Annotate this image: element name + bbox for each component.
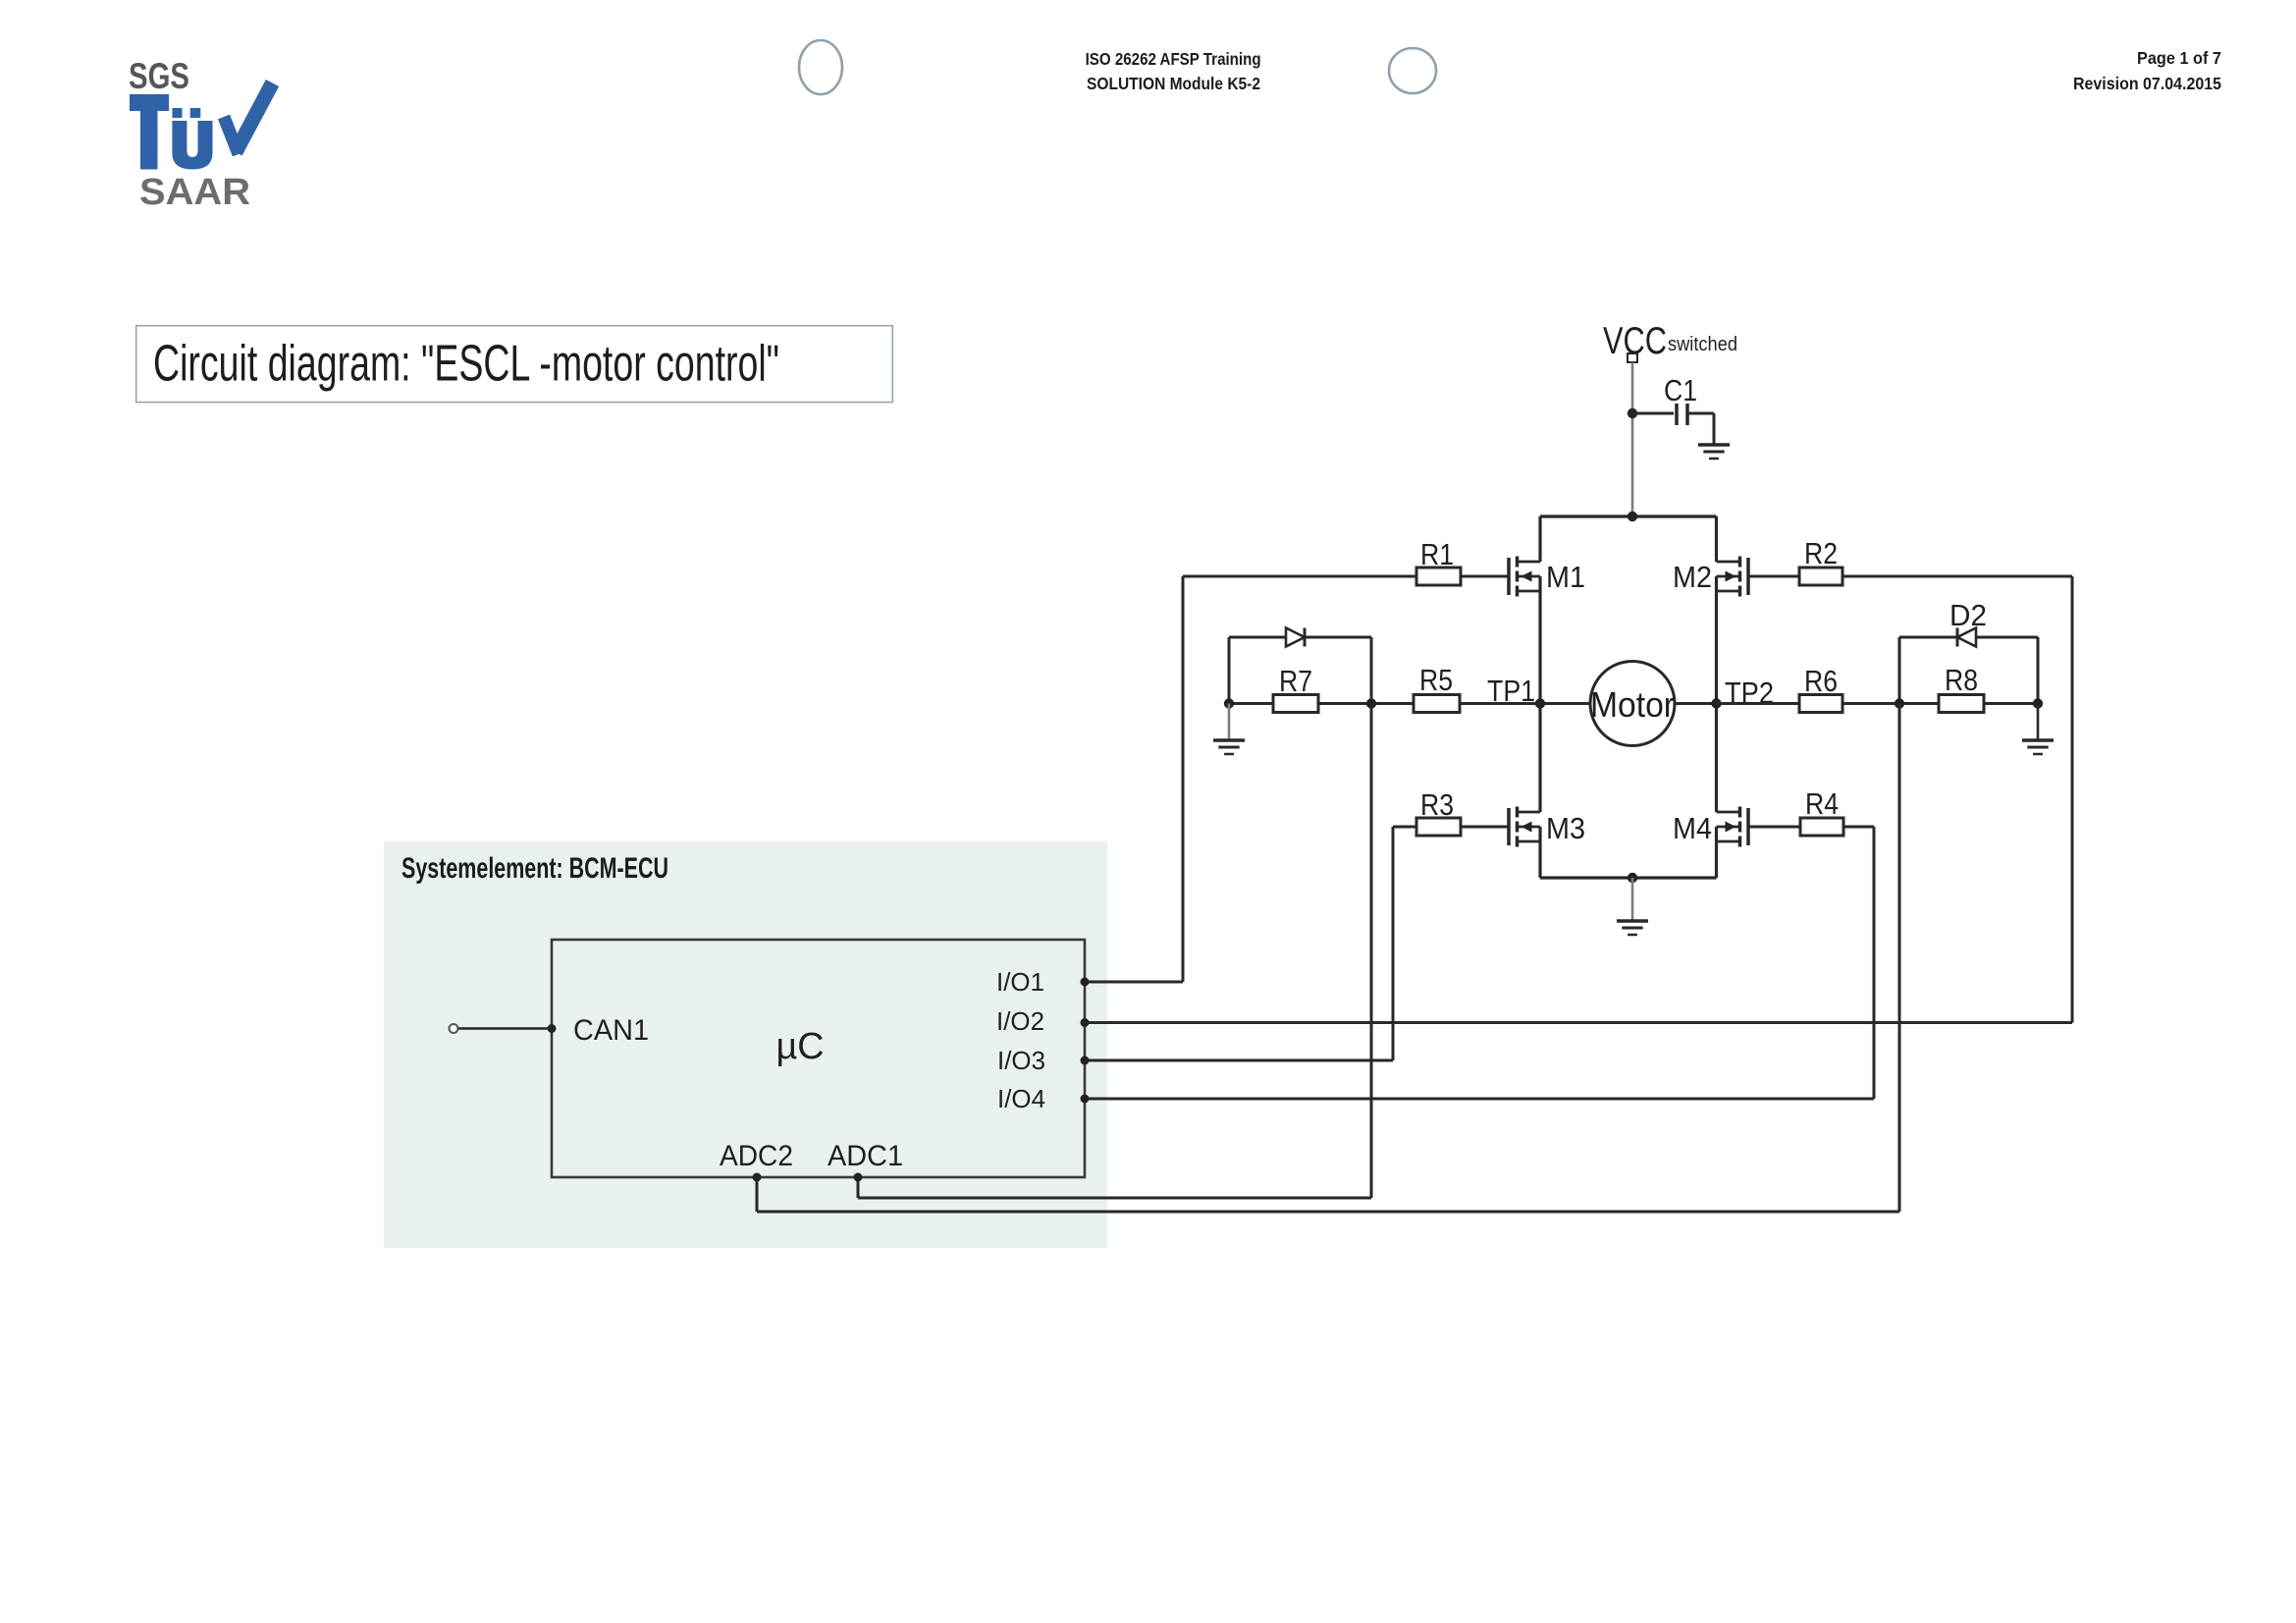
capacitor C1 <box>1664 373 1697 425</box>
wire R4 to rail <box>1843 826 1874 829</box>
terminal CAN1 (open circle) <box>450 1024 458 1033</box>
svg-text:I/O1: I/O1 <box>996 967 1044 997</box>
svg-text:M4: M4 <box>1673 811 1712 845</box>
wire H-bridge top edge <box>1540 514 1717 517</box>
diode D1 (unlabeled) <box>1286 628 1305 647</box>
wire M3 drain vertical (from TP1) <box>1538 704 1541 813</box>
svg-text:switched: switched <box>1668 334 1737 355</box>
svg-text:R1: R1 <box>1420 537 1454 571</box>
wire R3 gate lead <box>1461 826 1509 829</box>
wire R6 to node B <box>1842 702 1939 705</box>
node R8 right (ground node) <box>2033 698 2043 708</box>
pin ADC1 <box>828 1140 903 1182</box>
wire M1 drain vertical <box>1538 516 1541 562</box>
pin I/O1 <box>996 967 1090 997</box>
ground (C1) <box>1698 445 1730 459</box>
wire I/O4 horizontal <box>1085 1098 1874 1101</box>
title box <box>136 326 893 403</box>
svg-text:µC: µC <box>776 1026 825 1067</box>
wire D2 loop right vertical <box>2037 637 2040 704</box>
svg-text:D2: D2 <box>1949 598 1987 632</box>
resistor R3 <box>1416 787 1461 836</box>
transistor M4 (MOSFET) <box>1673 807 1748 847</box>
svg-text:SGS: SGS <box>129 56 189 96</box>
node C1 tap <box>1628 408 1637 418</box>
wire D1 loop right vertical <box>1370 637 1373 704</box>
wire M3 source vertical <box>1538 827 1541 878</box>
wire ground stem right <box>2037 704 2040 741</box>
svg-text:Systemelement: BCM-ECU: Systemelement: BCM-ECU <box>401 852 668 885</box>
SGS TUV SAAR logo <box>129 56 273 213</box>
wire M4 drain vertical (from TP2) <box>1715 704 1718 813</box>
wire M4 source vertical <box>1715 827 1718 878</box>
wire motor to TP2 <box>1675 702 1717 705</box>
resistor R4 <box>1800 786 1843 836</box>
resistor R6 <box>1799 664 1842 713</box>
svg-text:C1: C1 <box>1664 373 1697 407</box>
wire C1 lead left <box>1632 412 1674 415</box>
svg-text:I/O3: I/O3 <box>997 1046 1045 1075</box>
wire D1 loop left vertical <box>1228 637 1231 704</box>
node A (R7/R5 junction, ADC1 sense) <box>1366 698 1376 708</box>
wire M2 drain vertical <box>1715 516 1718 562</box>
transistor M3 (MOSFET) <box>1509 807 1585 847</box>
wire ground stem left <box>1228 704 1231 741</box>
header right text <box>2073 48 2221 93</box>
node R7 left (ground node) <box>1224 698 1234 708</box>
node B (R6/R8 junction, ADC2 sense) <box>1895 698 1904 708</box>
resistor R7 <box>1273 664 1318 713</box>
motor <box>1590 662 1675 746</box>
wire M1 source vertical (to TP1) <box>1538 576 1541 704</box>
pin I/O2 <box>996 1006 1090 1036</box>
wire I/O3 horizontal <box>1085 1059 1393 1062</box>
svg-text:VCC: VCC <box>1603 320 1667 362</box>
wire R4 gate lead <box>1748 826 1800 829</box>
ground (right sense) <box>2022 740 2054 754</box>
wire node B down to ADC2 line <box>1898 704 1901 1213</box>
ground (left sense) <box>1213 740 1245 754</box>
svg-text:CAN1: CAN1 <box>573 1014 649 1047</box>
wire R2 to right rail <box>1842 575 2072 578</box>
punch hole right <box>1389 48 1436 93</box>
transistor M2 (MOSFET) <box>1673 557 1748 597</box>
wire CAN1 lead <box>458 1027 552 1030</box>
svg-text:R2: R2 <box>1804 536 1838 570</box>
node TP2 <box>1711 676 1774 710</box>
wire node A down to ADC1 line <box>1370 704 1373 1199</box>
svg-text:R5: R5 <box>1419 663 1453 697</box>
header center text <box>1086 49 1261 93</box>
svg-text:I/O4: I/O4 <box>997 1084 1045 1113</box>
svg-text:R6: R6 <box>1804 664 1838 698</box>
svg-text:M1: M1 <box>1546 560 1585 594</box>
svg-text:Circuit diagram: "ESCL -motor: Circuit diagram: "ESCL -motor control" <box>153 336 779 393</box>
wire R1 to left rail <box>1183 575 1416 578</box>
wire VCC vertical <box>1631 362 1634 516</box>
punch hole left <box>799 40 842 94</box>
wire R1 gate lead <box>1461 575 1509 578</box>
wire H-bridge bottom edge <box>1540 876 1717 879</box>
svg-text:Revision 07.04.2015: Revision 07.04.2015 <box>2073 74 2221 93</box>
wire R7 to node A <box>1318 702 1414 705</box>
svg-text:Page 1 of 7: Page 1 of 7 <box>2137 48 2221 68</box>
wire R5 to TP1 <box>1460 702 1540 705</box>
svg-text:SAAR: SAAR <box>139 172 250 213</box>
wire D2 loop top right segment <box>1976 636 2038 639</box>
svg-text:ISO 26262 AFSP Training: ISO 26262 AFSP Training <box>1086 49 1261 69</box>
ground (bridge) <box>1617 921 1648 935</box>
wire ADC1 pin vertical <box>857 1177 860 1198</box>
wire D2 loop left vertical <box>1898 637 1901 704</box>
wire bridge ground stem <box>1631 878 1634 921</box>
svg-text:I/O2: I/O2 <box>996 1006 1044 1036</box>
Systemelement BCM-ECU green background box <box>384 841 1107 1248</box>
wire left rail down to I/O1 <box>1182 576 1185 982</box>
svg-text:R7: R7 <box>1279 664 1312 698</box>
diode D2 <box>1949 598 1987 647</box>
wire ADC2 horizontal <box>757 1211 1899 1214</box>
wire R4 rail down to I/O4 <box>1873 827 1876 1099</box>
microcontroller uC (BCM-ECU) <box>552 940 1085 1177</box>
pin I/O3 <box>997 1046 1090 1075</box>
svg-text:SOLUTION Module K5-2: SOLUTION Module K5-2 <box>1087 74 1260 93</box>
node bridge top (VCC) <box>1628 512 1637 521</box>
wire I/O1 horizontal <box>1085 981 1183 984</box>
wire R3 rail down to I/O3 <box>1392 827 1395 1060</box>
wire D1 loop top right segment <box>1306 636 1371 639</box>
svg-text:Motor: Motor <box>1590 684 1675 725</box>
pin ADC2 <box>720 1140 793 1182</box>
svg-text:R3: R3 <box>1420 787 1454 822</box>
resistor R8 <box>1939 663 1984 713</box>
wire C1 lead right <box>1688 413 1715 445</box>
svg-text:ADC2: ADC2 <box>720 1140 793 1172</box>
wire D2 loop top left segment <box>1899 636 1956 639</box>
transistor M1 (MOSFET) <box>1509 557 1585 597</box>
svg-text:M2: M2 <box>1673 560 1712 594</box>
wire TP1 to motor <box>1540 702 1590 705</box>
wire D1 loop top left segment <box>1229 636 1286 639</box>
wire I/O2 horizontal <box>1085 1021 2072 1024</box>
pin I/O4 <box>997 1084 1090 1113</box>
svg-text:R8: R8 <box>1945 663 1978 697</box>
resistor R5 <box>1414 663 1460 713</box>
resistor R1 <box>1416 537 1461 585</box>
wire ADC1 horizontal <box>858 1197 1371 1200</box>
svg-text:R4: R4 <box>1805 786 1839 821</box>
wire M2 source vertical (to TP2) <box>1715 576 1718 704</box>
wire node to R7 <box>1229 702 1273 705</box>
resistor R2 <box>1799 536 1842 585</box>
svg-text:ADC1: ADC1 <box>828 1140 903 1172</box>
node TP1 <box>1487 674 1545 709</box>
svg-text:M3: M3 <box>1546 811 1585 845</box>
wire TP2 to R6 <box>1717 702 1800 705</box>
pin CAN1 <box>548 1014 650 1047</box>
wire R2 gate lead <box>1748 575 1799 578</box>
node bridge bottom <box>1628 873 1637 883</box>
wire R3 to rail <box>1393 826 1416 829</box>
wire right rail down to I/O2 <box>2071 576 2074 1023</box>
wire ADC2 pin vertical <box>756 1177 759 1212</box>
power terminal VCC_switched <box>1603 320 1737 362</box>
wire R8 to ground node <box>1984 702 2038 705</box>
